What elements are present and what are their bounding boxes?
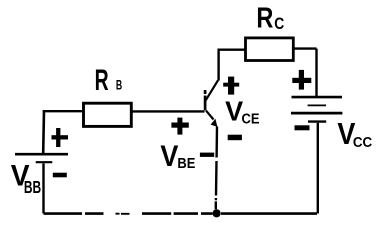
svg-text:BE: BE	[177, 155, 195, 172]
svg-text:CE: CE	[242, 110, 260, 127]
svg-text:CC: CC	[353, 134, 372, 151]
svg-text:B: B	[116, 76, 122, 92]
svg-text:R: R	[95, 64, 109, 97]
svg-text:C: C	[274, 14, 284, 33]
svg-text:V: V	[160, 140, 178, 173]
svg-text:BB: BB	[24, 177, 41, 197]
svg-text:R: R	[256, 3, 273, 35]
